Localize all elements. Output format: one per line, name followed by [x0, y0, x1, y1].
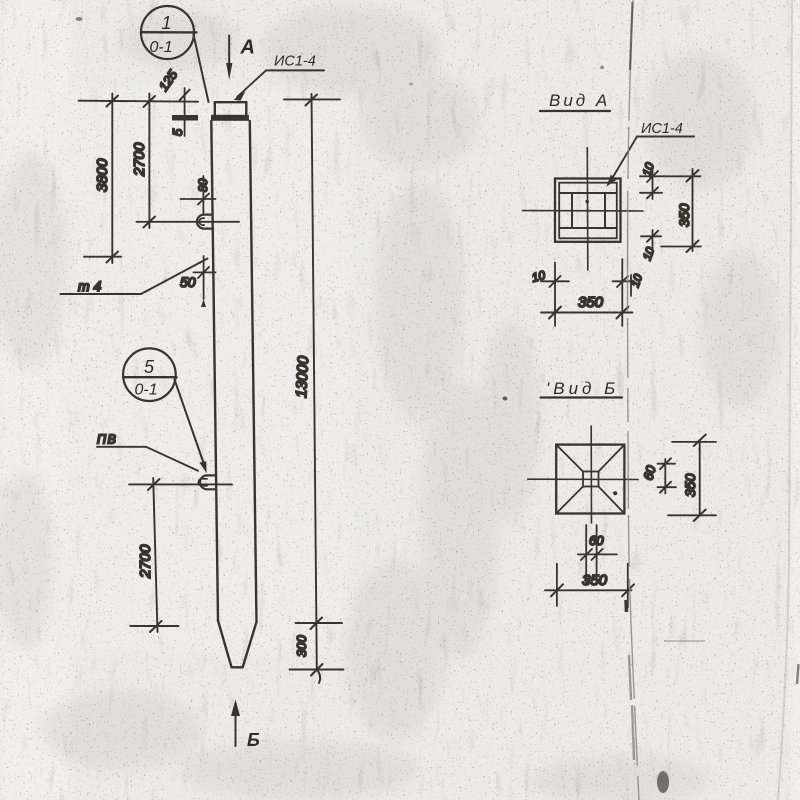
scan fold line — [627, 0, 639, 800]
dim 10 top right (view A) — [652, 170, 654, 199]
dim 350 right (view A) — [692, 169, 694, 251]
dimension 80 at upper loop — [202, 176, 204, 213]
dim 350 bottom (view Б) — [545, 589, 632, 591]
view A inner vertical bars — [571, 193, 573, 228]
dim 350 right (view Б) — [699, 440, 701, 516]
view A centerline horizontal — [523, 210, 644, 212]
section arrow Б — [235, 712, 237, 746]
dim 10 bottom right (view A) — [652, 230, 654, 255]
leader from callout 5 — [175, 380, 206, 469]
13000 top extension — [284, 98, 340, 100]
label ИС1-4 leader (left view) — [266, 69, 324, 71]
view Б square — [556, 445, 624, 514]
view Б center square — [583, 472, 599, 487]
label ИС1-4 (view A) leader — [637, 136, 694, 138]
2700 lower bottom extension — [131, 625, 179, 627]
pile body left edge — [211, 121, 218, 621]
view Б diagonals — [556, 445, 583, 472]
dim 60 right (view Б) — [664, 459, 666, 494]
label m4 leader — [61, 293, 142, 295]
view A title underline — [540, 110, 610, 112]
dimension 3800 line — [111, 94, 113, 264]
dim 350 bottom (view A) — [541, 312, 633, 314]
view Б centerline horizontal — [528, 478, 638, 480]
dimension 125 small — [184, 88, 186, 136]
small speck top left — [76, 17, 83, 21]
view A outer square — [555, 179, 621, 242]
300 bottom extension — [290, 669, 344, 671]
view A inner horizontal bars — [559, 192, 617, 194]
view Б centerline vertical — [590, 426, 592, 523]
leader from callout 1 — [194, 35, 209, 103]
view A bottom extensions — [554, 263, 556, 327]
lower lifting loop — [200, 475, 215, 489]
dimension 2700 upper line — [148, 94, 150, 229]
pile body right edge — [250, 121, 257, 622]
dimension 13000 line — [312, 94, 317, 670]
pile tip taper — [218, 621, 257, 668]
2700 lower top extension — [129, 483, 232, 485]
top extension line — [79, 101, 199, 102]
2700 upper extension to loop — [137, 221, 240, 223]
center mark — [586, 210, 590, 212]
dimension 300 extension — [296, 622, 343, 624]
callout circle 5 (node 5 / 0-1) — [123, 348, 176, 401]
cap thick band — [211, 115, 249, 121]
10 tick lines bottom — [541, 280, 569, 282]
view A centerline vertical — [586, 148, 589, 271]
toner blob bottom — [657, 771, 669, 793]
callout circle 1 (node 1 / 0-1) — [141, 6, 194, 59]
label ПВ leader — [97, 447, 198, 471]
section arrow A — [228, 36, 230, 65]
view A inner square — [559, 183, 617, 239]
upper lifting loop — [197, 215, 213, 229]
view Б bottom 60 extensions — [585, 525, 587, 583]
pile cap plate — [215, 102, 247, 116]
right edge shadow — [778, 0, 792, 800]
dimension 2700 lower line — [153, 478, 157, 632]
3800 lower extension — [84, 256, 121, 258]
dimension 50 — [203, 256, 205, 299]
view Б title underline — [541, 396, 623, 398]
